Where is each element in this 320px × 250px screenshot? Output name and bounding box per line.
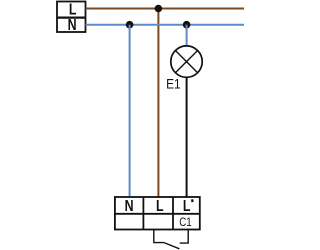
svg-text:E1: E1 <box>166 76 181 92</box>
switch S1 contact under terminal block <box>154 229 188 249</box>
svg-text:C1: C1 <box>179 216 191 229</box>
junction on N wire at lamp <box>183 21 191 29</box>
wire N blue horizontal <box>86 24 245 26</box>
junction on L wire <box>155 5 163 13</box>
svg-text:N: N <box>125 197 134 215</box>
supply terminal box L/N <box>57 2 86 33</box>
svg-text:N: N <box>68 16 77 34</box>
junction on N wire <box>126 21 134 29</box>
wire L brown horizontal <box>86 8 245 10</box>
wire L brown vertical to terminal L <box>157 9 159 198</box>
svg-text:L: L <box>183 197 191 215</box>
wire N blue vertical to lamp <box>186 25 188 46</box>
label terminal L' <box>183 197 194 215</box>
wire black lamp to terminal L' <box>186 77 188 197</box>
terminal block N L L' / C1 <box>115 197 200 230</box>
wire N blue vertical to terminal N <box>129 25 131 197</box>
svg-text:L: L <box>156 197 164 215</box>
lamp E1 <box>171 46 202 77</box>
